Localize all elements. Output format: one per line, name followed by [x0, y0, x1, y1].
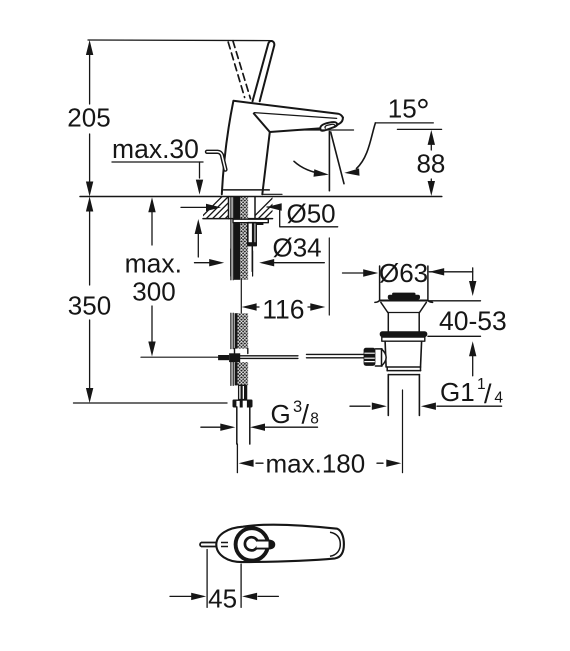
flange underside collar — [382, 337, 425, 341]
small ring — [245, 537, 258, 550]
hose braid 2 — [238, 313, 249, 348]
svg-text:45: 45 — [208, 584, 237, 614]
15deg underline — [375, 122, 433, 124]
spout tilted axis 15deg — [331, 132, 344, 184]
deck hole left wall — [228, 197, 230, 219]
body/base joint line — [224, 189, 270, 191]
mounting washer under deck — [233, 219, 268, 223]
drain flange (black band) — [380, 331, 428, 337]
pop-up housing — [248, 223, 256, 246]
G3/8 nut — [233, 400, 253, 408]
svg-text:Ø50: Ø50 — [287, 199, 336, 229]
body right edge — [262, 132, 270, 194]
hose end knurled fitting — [239, 385, 247, 399]
arrow 205 down — [86, 182, 93, 197]
svg-text:88: 88 — [416, 149, 445, 179]
joystick stub — [257, 540, 275, 548]
faucet body outline — [222, 101, 343, 194]
deck (counter) top line — [80, 196, 442, 198]
88 arrow down — [428, 181, 435, 196]
hose braid 3 — [238, 362, 249, 385]
handle outline — [216, 525, 344, 562]
deck section hatch left — [200, 197, 247, 219]
drain taper to neck — [381, 302, 426, 312]
15deg arc right (from label to tilted axis) — [357, 123, 376, 169]
left extension — [236, 444, 238, 473]
max300 arrow down — [148, 342, 155, 357]
G1 1/4 label and leader — [350, 405, 502, 407]
svg-text:350: 350 — [68, 291, 111, 321]
svg-text:15: 15 — [388, 93, 417, 123]
arrow 350 down — [86, 388, 93, 403]
lever bar segment 2 — [307, 353, 366, 355]
drain plug cap top — [392, 293, 415, 296]
svg-text:116: 116 — [262, 295, 304, 325]
drain neck walls — [387, 313, 389, 332]
116 arrows and label — [242, 303, 257, 310]
svg-text:G: G — [271, 399, 291, 429]
svg-text:40-53: 40-53 — [439, 306, 507, 336]
hose black core 1 — [234, 197, 241, 280]
max300 arrow up — [148, 197, 155, 212]
G3/8 threaded pipe — [236, 407, 238, 444]
dim 205/350 vertical line — [89, 53, 91, 104]
Ø34 leader lines — [195, 262, 212, 264]
tailpipe centerline / max180 right extension — [402, 390, 404, 473]
max.30 arrow line — [199, 162, 201, 178]
lever fitting block — [229, 353, 240, 362]
15deg arc arrowhead left — [314, 169, 329, 176]
stub inside blob — [221, 543, 228, 547]
threaded shank / braided hose column: section 1 — [230, 197, 232, 280]
svg-text:max.: max. — [125, 248, 182, 278]
spout mouth vertical axis — [328, 132, 330, 191]
40-53 dimension — [428, 268, 481, 376]
inner cap line right — [330, 532, 340, 556]
pop-up rod below housing — [251, 246, 253, 272]
hose column section 2 rails — [230, 313, 232, 348]
88 top reference line (at spout mouth level) — [300, 129, 354, 131]
lever fitting nub — [218, 355, 229, 360]
svg-text:/: / — [302, 400, 310, 430]
max300 dim line — [151, 210, 153, 245]
deck section hatch right — [252, 197, 287, 219]
max.30 arrow up from below — [195, 219, 202, 234]
max.30 underline — [112, 161, 203, 163]
drain body bottom rings — [387, 366, 420, 368]
drain top cup walls (also Ø63 extension lines) — [379, 266, 381, 300]
spout underside V — [254, 114, 320, 133]
G 3/8 label and leader — [201, 426, 318, 428]
350 bottom reference line — [74, 402, 228, 404]
handle raised position (dashed) — [228, 41, 250, 99]
Ø34 arrow left — [209, 259, 224, 266]
arrow 350 up — [86, 197, 93, 212]
hose black core 2 — [235, 313, 238, 348]
hose braid 1 — [240, 197, 248, 280]
svg-text:max.30: max.30 — [112, 134, 199, 164]
short base line right — [262, 193, 282, 195]
hose column section 3 rails — [230, 362, 232, 385]
max.30 arrow down — [196, 180, 203, 195]
Ø34 extension lines — [230, 249, 232, 276]
big ring — [236, 528, 268, 560]
15deg arc arrowhead right — [344, 168, 359, 175]
svg-text:Ø63: Ø63 — [379, 258, 428, 288]
top reference line — [88, 39, 272, 42]
svg-text:max.180: max.180 — [266, 448, 366, 478]
svg-text:205: 205 — [67, 103, 110, 133]
knob coupling to drain body — [375, 349, 382, 366]
drain plug cap — [388, 295, 420, 300]
drain body below flange — [385, 341, 422, 367]
lever bar segment 1 — [240, 355, 298, 357]
pop-up rod hook at back of body — [207, 152, 225, 170]
spout crease line — [254, 113, 336, 119]
deck hole right wall — [254, 197, 256, 219]
hose black core 3 — [235, 362, 238, 385]
hose neck above lever fitting — [234, 349, 236, 354]
pop-up knob (knurled) — [364, 348, 376, 366]
arrow 205 up — [86, 40, 93, 55]
svg-text:/: / — [484, 379, 492, 409]
deck bottom line — [203, 218, 273, 220]
hose break centerline — [240, 280, 242, 313]
15deg arc left — [294, 161, 325, 174]
handle lever (solid, tilted 15deg) — [253, 41, 275, 101]
45 dimension — [170, 550, 278, 608]
svg-text:8: 8 — [310, 411, 319, 428]
svg-text:G1: G1 — [440, 377, 475, 407]
Ø50 arrow right — [267, 203, 282, 210]
Ø34 arrow right — [259, 259, 274, 266]
88 dim line — [430, 143, 432, 150]
max.180 dimension — [237, 444, 383, 473]
svg-text:Ø34: Ø34 — [273, 233, 322, 263]
pop-up stub (left) — [200, 543, 225, 547]
svg-text:300: 300 — [132, 277, 175, 307]
pop-up lever horizontal: thin extension left — [141, 356, 218, 358]
Ø63 dimension — [343, 272, 473, 273]
aerator — [320, 122, 337, 131]
spout nose underside — [336, 118, 343, 126]
svg-text:4: 4 — [494, 389, 503, 406]
40-53 reference lines — [428, 300, 481, 302]
Ø50 leader — [181, 206, 207, 208]
drain tailpipe — [387, 375, 389, 416]
spout axis extension line (116 right reference) — [328, 238, 330, 315]
drain cup bottom ledge with flares — [375, 300, 433, 302]
88 arrow up — [428, 130, 435, 145]
Ø50 arrow left — [206, 204, 221, 211]
